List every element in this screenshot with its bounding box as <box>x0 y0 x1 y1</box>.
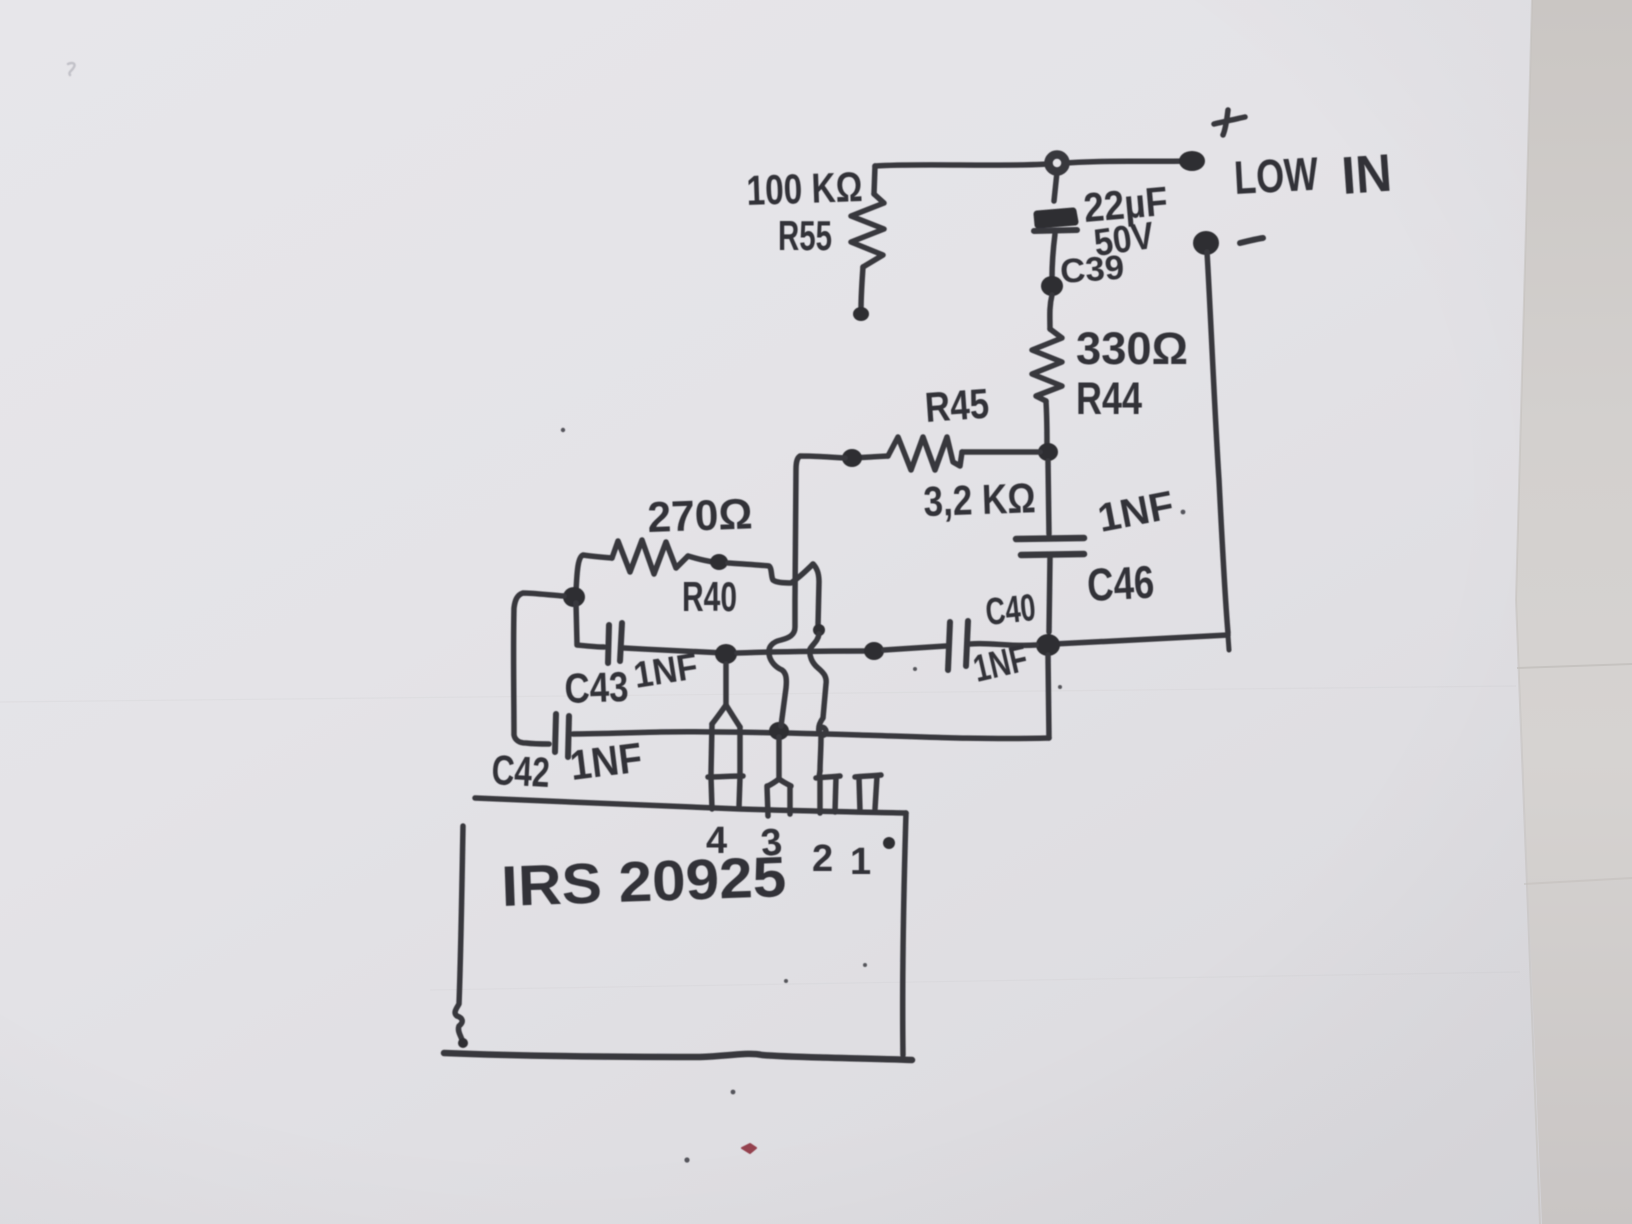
dust specks <box>561 428 1186 1163</box>
wire mid rail second segment <box>737 651 868 653</box>
capacitor C40 <box>948 621 1036 670</box>
node big junction dot C40/C46 <box>1036 634 1060 656</box>
svg-text:3,2 KΩ: 3,2 KΩ <box>923 474 1037 525</box>
IC U1 end blob left edge <box>458 1038 468 1048</box>
resistor R55 <box>851 166 884 321</box>
IC U1 right edge <box>903 813 906 1055</box>
svg-text:3: 3 <box>759 821 784 865</box>
node junction dot C39/R44 <box>1041 276 1063 296</box>
wire pin3 below rail <box>776 737 782 779</box>
svg-text:100 KΩ: 100 KΩ <box>746 163 864 214</box>
pin 3 connector <box>767 779 791 816</box>
node junction dot R44/R45/C46 <box>1038 443 1058 461</box>
svg-text:R44: R44 <box>1076 373 1142 424</box>
pin 2 connector <box>816 771 840 813</box>
svg-text:LOW: LOW <box>1233 147 1320 204</box>
IC U1 IRS20925 box top edge <box>475 798 906 813</box>
plus sign <box>1214 110 1245 135</box>
svg-text:C42: C42 <box>491 746 551 796</box>
wire main mid rail <box>624 648 724 653</box>
node blob on R40 wire <box>710 554 728 570</box>
faint pencil smudge top left <box>68 63 75 75</box>
svg-text:R45: R45 <box>923 380 990 431</box>
capacitor C46 <box>1016 461 1084 632</box>
wire left bracket <box>514 593 564 744</box>
node junction dot mid rail / C40 <box>864 642 884 660</box>
svg-text:R40: R40 <box>682 573 737 620</box>
IC U1 bottom edge <box>444 1053 912 1060</box>
svg-text:C39: C39 <box>1059 249 1125 291</box>
strip fold lines <box>1517 664 1632 668</box>
paper crease lines <box>0 686 1516 702</box>
capacitor C43 <box>577 623 622 663</box>
wire R45 drop to pin3 with hop <box>769 456 845 726</box>
node R45 left junction dot <box>842 449 862 467</box>
node + terminal dot <box>1179 151 1205 171</box>
wire R40 drop to pin2 with hop and loop <box>813 564 819 626</box>
wire bottom-right rail corner to C40 junction <box>1054 635 1228 644</box>
svg-text:IRS 20925: IRS 20925 <box>500 845 787 919</box>
svg-text:4: 4 <box>706 820 727 862</box>
svg-text:2: 2 <box>812 838 833 880</box>
pin 1 connector <box>855 775 881 811</box>
red smudge <box>742 1144 756 1153</box>
wire junction down to C43 <box>576 603 577 644</box>
wire mid rail to C40 <box>884 646 946 650</box>
wire C46 junction down to C42 rail <box>1048 655 1049 738</box>
svg-text:R55: R55 <box>778 212 832 259</box>
wire C42 bottom rail <box>573 732 1049 739</box>
svg-text:C40: C40 <box>984 587 1038 634</box>
resistor R44 <box>1032 295 1062 446</box>
svg-text:C43: C43 <box>564 663 630 712</box>
node junction dot mid rail / pin4 <box>715 644 737 664</box>
IC U1 left edge <box>455 826 463 1040</box>
svg-text:C46: C46 <box>1086 556 1156 611</box>
svg-text:1NF: 1NF <box>567 734 644 789</box>
minus sign <box>1240 238 1263 243</box>
svg-text:IN: IN <box>1340 144 1394 206</box>
wire top supply rail <box>875 164 1048 166</box>
node small blob pin2 hop <box>813 624 825 636</box>
paper edge line <box>1516 0 1540 1224</box>
svg-text:1: 1 <box>850 841 871 883</box>
wire right rail <box>1207 252 1228 633</box>
capacitor C39 <box>1034 172 1077 278</box>
node - terminal dot <box>1193 231 1219 255</box>
resistor R40 <box>576 540 714 592</box>
node junction dot C43/R40 <box>563 587 585 607</box>
svg-text:330Ω: 330Ω <box>1076 323 1188 374</box>
node ring junction at C39 top <box>1049 155 1066 172</box>
pin 4 connector <box>708 705 743 809</box>
wire pin4 drop from mid rail <box>723 664 729 707</box>
wire R40 right to pin2 drop <box>728 563 813 583</box>
node junction dot pin3/C42 rail <box>769 722 789 740</box>
right paper edge strip <box>1516 0 1632 1224</box>
pin1 index dot <box>883 837 895 849</box>
resistor R45 <box>852 437 1040 470</box>
capacitor C42 <box>555 714 569 757</box>
wire top rail right segment <box>1066 161 1186 163</box>
svg-text:270Ω: 270Ω <box>647 490 754 542</box>
